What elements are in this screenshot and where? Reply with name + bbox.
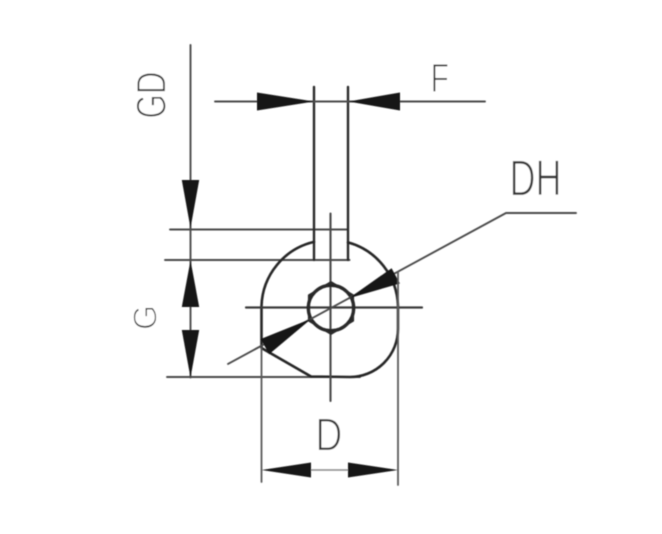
- svg-text:GD: GD: [128, 72, 175, 119]
- svg-text:F: F: [431, 55, 450, 101]
- wire: GD/G vertical dimension line: [190, 45, 192, 228]
- svg-text:D: D: [315, 409, 342, 461]
- arrow: opposite leader arrowhead: [261, 319, 312, 355]
- leader line DH: [349, 213, 576, 298]
- wire: D left extension line: [261, 348, 263, 482]
- dimension D line: [310, 469, 350, 471]
- eye body outline: [262, 242, 399, 377]
- wire: D right extension line: [397, 272, 399, 485]
- wire: extension line at collar top y=229.5: [170, 229, 348, 231]
- arrow: DH leader arrowhead: [349, 268, 400, 298]
- horizontal centerline: [246, 306, 422, 308]
- arrow: F left (points right at rod): [257, 93, 314, 111]
- vertical centerline: [329, 214, 331, 402]
- wire: extension line at part bottom y=377: [167, 376, 360, 378]
- arrow: D right (points right): [348, 463, 398, 478]
- hex insert around bore: [309, 282, 353, 334]
- dimension F line: [215, 101, 485, 103]
- arrow: G up arrow: [182, 261, 199, 308]
- arrow: F right (points left at rod): [349, 93, 401, 111]
- svg-text:G: G: [127, 305, 164, 330]
- bore circle DH: [308, 285, 353, 330]
- arrow: D left (points left): [262, 463, 312, 478]
- rod (piston rod shank): [313, 87, 315, 260]
- arrow: GD down arrow: [182, 180, 199, 228]
- arrow: G down arrow: [182, 330, 199, 378]
- svg-text:DH: DH: [510, 150, 562, 207]
- wire: leader lower-left extension: [228, 319, 312, 364]
- wire: leader segment through bore: [312, 298, 350, 318]
- wire: extension line at rod end y=260: [165, 259, 350, 261]
